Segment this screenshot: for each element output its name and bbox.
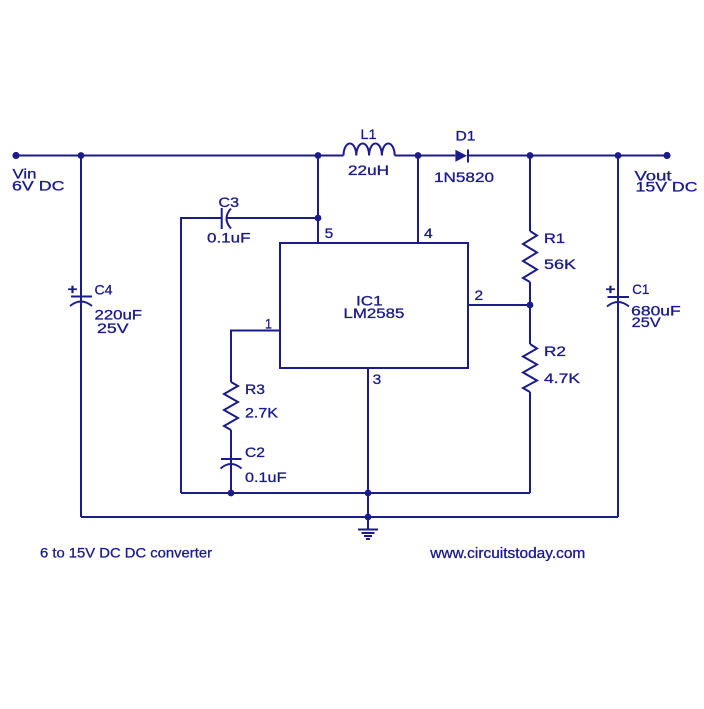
svg-text:R1: R1 bbox=[544, 231, 565, 246]
svg-text:www.circuitstoday.com: www.circuitstoday.com bbox=[429, 546, 585, 562]
node pin4 top junction bbox=[415, 152, 422, 159]
wire outer bottom rail bbox=[81, 516, 618, 518]
node Vin terminal bbox=[12, 152, 19, 159]
node C1 top junction bbox=[615, 152, 622, 159]
wire R1 top bbox=[529, 156, 531, 232]
svg-text:1: 1 bbox=[265, 316, 272, 332]
svg-text:4: 4 bbox=[424, 225, 433, 241]
node C2 inner rail junction bbox=[228, 490, 235, 497]
wire pin4 vertical bbox=[417, 156, 419, 244]
svg-text:L1: L1 bbox=[361, 127, 377, 142]
svg-text:6 to 15V DC DC converter: 6 to 15V DC DC converter bbox=[40, 545, 212, 561]
svg-text:LM2585: LM2585 bbox=[344, 306, 405, 321]
svg-text:D1: D1 bbox=[456, 129, 476, 144]
svg-text:C4: C4 bbox=[95, 282, 113, 297]
wire C1 branch lower bbox=[617, 297, 619, 517]
svg-text:6V DC: 6V DC bbox=[12, 179, 65, 194]
resistor R2 bbox=[523, 344, 537, 392]
svg-text:C2: C2 bbox=[245, 445, 265, 460]
diode D1 bbox=[455, 150, 468, 163]
capacitor C2 bbox=[221, 459, 242, 469]
svg-text:5: 5 bbox=[325, 225, 334, 241]
node pin3 inner rail junction bbox=[365, 490, 372, 497]
wire pin2 bbox=[468, 304, 530, 306]
wire C1 branch upper bbox=[617, 156, 619, 298]
inductor L1 bbox=[344, 143, 395, 155]
svg-text:C1: C1 bbox=[632, 282, 649, 297]
capacitor C3 bbox=[222, 208, 231, 229]
svg-text:0.1uF: 0.1uF bbox=[207, 231, 251, 246]
node ground outer rail junction bbox=[365, 514, 372, 521]
wire diode to Vout bbox=[468, 155, 667, 157]
svg-text:0.1uF: 0.1uF bbox=[245, 470, 287, 485]
node pin2 junction bbox=[527, 302, 534, 309]
capacitor C4 bbox=[70, 297, 92, 307]
wire C3 to pin5 column bbox=[227, 217, 319, 219]
svg-text:C3: C3 bbox=[219, 195, 240, 210]
wire C3 left branch bbox=[181, 218, 222, 493]
svg-text:25V: 25V bbox=[632, 315, 661, 330]
svg-text:2.7K: 2.7K bbox=[245, 406, 278, 421]
node pin5 top junction bbox=[315, 152, 322, 159]
wire C2 to inner rail bbox=[230, 459, 232, 493]
node Vout terminal bbox=[663, 152, 670, 159]
wire pin3 vertical bbox=[367, 368, 369, 517]
svg-text:2: 2 bbox=[475, 287, 484, 303]
wire R1 to pin2 node bbox=[529, 282, 531, 344]
op-amp IC1 box bbox=[280, 243, 468, 368]
wire C4 branch upper bbox=[80, 156, 82, 297]
ground bbox=[358, 517, 378, 539]
wire pin5 vertical bbox=[317, 156, 319, 244]
svg-text:15V DC: 15V DC bbox=[636, 180, 698, 195]
resistor R1 bbox=[523, 231, 537, 282]
svg-text:4.7K: 4.7K bbox=[544, 371, 580, 386]
svg-text:+: + bbox=[606, 282, 616, 297]
svg-text:56K: 56K bbox=[544, 257, 576, 272]
node C4 top junction bbox=[78, 152, 85, 159]
svg-text:3: 3 bbox=[373, 371, 382, 387]
svg-text:1N5820: 1N5820 bbox=[434, 170, 495, 185]
wire R3 to C2 bbox=[230, 430, 232, 459]
wire inner bottom rail bbox=[181, 492, 530, 494]
wire pin1 bbox=[231, 331, 280, 383]
svg-text:25V: 25V bbox=[97, 321, 129, 336]
wire top rail left (Vin to inductor) bbox=[16, 155, 344, 157]
resistor R3 bbox=[224, 382, 238, 430]
wire inductor to diode bbox=[395, 155, 456, 157]
capacitor C1 bbox=[607, 297, 629, 307]
svg-text:22uH: 22uH bbox=[348, 163, 389, 178]
svg-text:R2: R2 bbox=[544, 344, 566, 359]
svg-text:+: + bbox=[68, 282, 78, 297]
svg-text:R3: R3 bbox=[245, 382, 265, 397]
wire R2 bottom to inner rail bbox=[529, 392, 531, 493]
node R1 top junction bbox=[527, 152, 534, 159]
wire C4 branch lower bbox=[80, 297, 82, 518]
node C3 junction bbox=[315, 215, 322, 222]
